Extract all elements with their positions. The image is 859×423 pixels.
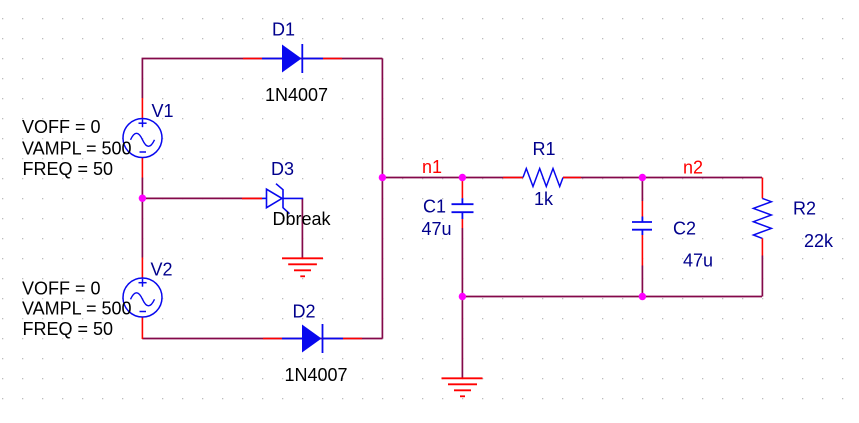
junction node at V1/V2 midpoint: [139, 195, 146, 202]
voltage source V1: [123, 98, 162, 178]
wire from mid junction to D3 anode: [142, 197, 262, 199]
diode D1: [243, 44, 342, 73]
wire output segment from R1 right through n2 to R2 top corner: [563, 177, 762, 179]
svg-text:C2: C2: [673, 219, 696, 239]
wire output n1 segment from right column to R1 left: [382, 177, 523, 179]
wire C2 column below capacitor to bottom rail: [641, 266, 643, 297]
svg-text:Dbreak: Dbreak: [273, 209, 332, 229]
ground below bottom rail: [442, 378, 483, 396]
svg-text:VOFF = 0: VOFF = 0: [22, 117, 101, 137]
wire bottom rail from C1 column to R2 column: [462, 296, 762, 298]
svg-text:D2: D2: [293, 302, 316, 322]
svg-text:D3: D3: [271, 159, 294, 179]
svg-text:47u: 47u: [422, 219, 452, 239]
wire R2 column below zigzag to bottom corner: [761, 256, 763, 297]
wire from mid junction down to V2 top pin: [141, 198, 143, 257]
wire from D3 cathode corner down to ground: [301, 199, 303, 258]
svg-text:FREQ = 50: FREQ = 50: [23, 159, 114, 179]
svg-text:V2: V2: [151, 260, 173, 280]
junction node n1 top: [459, 174, 466, 181]
wire ground stem below bottom rail: [461, 297, 463, 379]
diode D2: [263, 324, 362, 353]
svg-text:22k: 22k: [804, 231, 834, 251]
wire C2 column above capacitor: [641, 178, 643, 202]
junction node at right column / output wire: [379, 174, 386, 181]
junction node n2 top: [639, 174, 646, 181]
svg-text:n1: n1: [422, 157, 442, 177]
svg-text:V1: V1: [152, 101, 174, 121]
wire C1 column below capacitor to bottom rail: [461, 228, 463, 297]
svg-text:C1: C1: [423, 197, 446, 217]
svg-text:n2: n2: [683, 158, 703, 178]
svg-text:47u: 47u: [683, 251, 713, 271]
junction node C1 bottom: [459, 293, 466, 300]
svg-text:FREQ = 50: FREQ = 50: [23, 319, 114, 339]
capacitor C1: [452, 178, 474, 229]
resistor R2: [753, 178, 771, 256]
svg-text:VAMPL = 500: VAMPL = 500: [22, 139, 132, 159]
ground below D3: [282, 258, 323, 276]
junction node C2 bottom: [639, 293, 646, 300]
wire between V1 bottom pin and mid junction: [141, 178, 143, 199]
svg-text:VAMPL = 500: VAMPL = 500: [22, 299, 132, 319]
wire top loop from V1 top to right column: [142, 59, 382, 99]
svg-text:1N4007: 1N4007: [285, 365, 348, 385]
svg-text:VOFF = 0: VOFF = 0: [22, 279, 101, 299]
svg-text:R1: R1: [533, 139, 556, 159]
svg-text:R2: R2: [793, 199, 816, 219]
wire bottom loop from V2 bottom to right column: [142, 338, 382, 340]
svg-text:1k: 1k: [534, 189, 554, 209]
voltage source V2: [123, 258, 162, 340]
capacitor C2: [632, 201, 652, 266]
resistor R1: [503, 169, 581, 187]
wire right column from top corner to bottom corner: [381, 59, 383, 339]
svg-text:1N4007: 1N4007: [265, 85, 328, 105]
svg-text:D1: D1: [272, 20, 295, 40]
diode D3 (Dbreak): [242, 184, 303, 214]
